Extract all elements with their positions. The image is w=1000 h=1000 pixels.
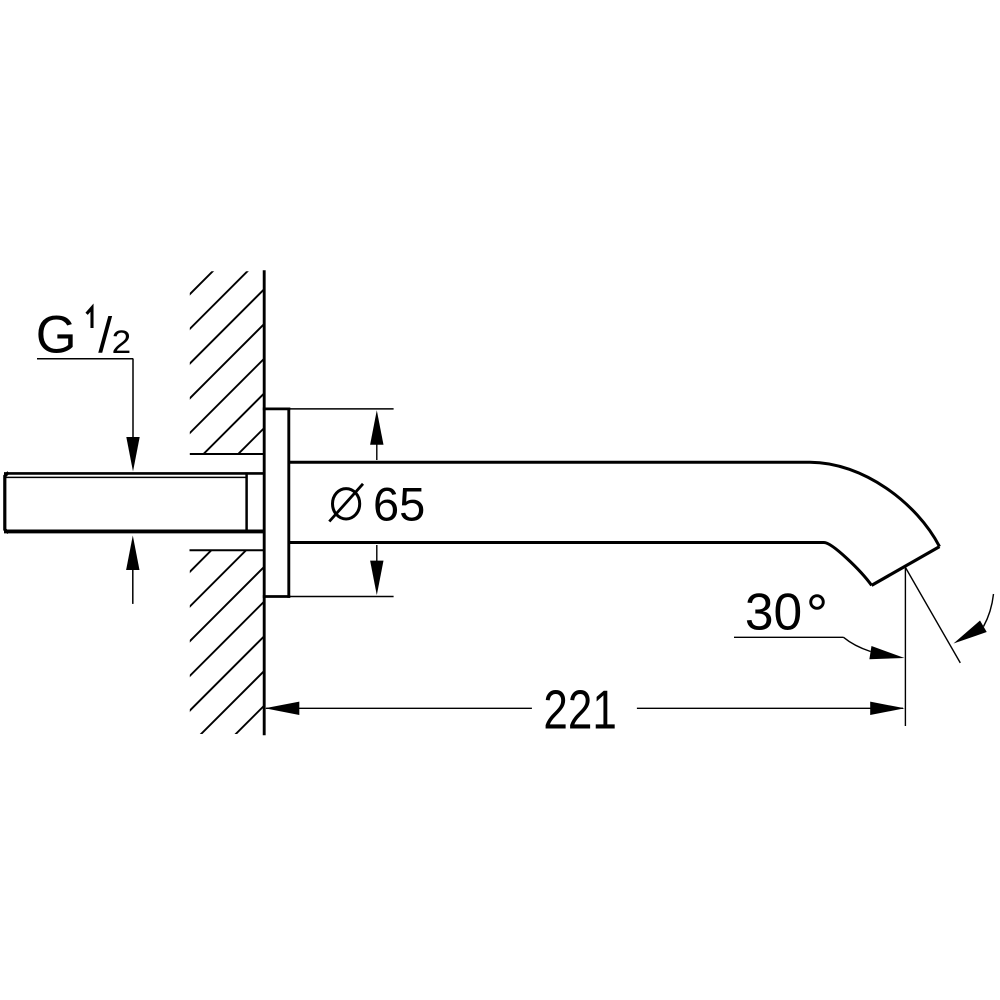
dim221 line left segment xyxy=(266,707,532,709)
G12 up arrow tail xyxy=(132,569,134,604)
svg-text:G: G xyxy=(36,305,77,364)
dia65 symbol circle xyxy=(333,489,360,519)
flange top extension line xyxy=(290,408,394,410)
flange bottom line xyxy=(263,595,290,598)
wall face line xyxy=(263,270,266,735)
wall hatching xyxy=(186,218,266,819)
dia65 symbol slash xyxy=(329,484,363,522)
G12 down arrow xyxy=(126,437,139,472)
dia65 top arrow tail xyxy=(376,443,378,460)
G12 underline xyxy=(37,358,133,360)
svg-text:65: 65 xyxy=(373,478,425,531)
degree ring xyxy=(811,596,824,609)
dia65 bottom arrow tail xyxy=(376,545,378,563)
deg30 leader curve xyxy=(844,637,871,651)
spout tube top line xyxy=(289,461,810,464)
spout mouth line xyxy=(872,547,940,586)
G12 text numerator 1 xyxy=(87,308,92,328)
flange top line xyxy=(263,407,290,410)
svg-text:2: 2 xyxy=(112,325,132,360)
deg30 leader arrow xyxy=(869,646,905,665)
pipe end line xyxy=(245,472,248,533)
pipe top edge xyxy=(4,472,264,475)
svg-text:30: 30 xyxy=(745,583,802,641)
dim221 left arrow xyxy=(265,702,300,715)
dia65 bottom arrow xyxy=(370,561,383,596)
dia65 top arrow xyxy=(370,410,383,445)
angle arc right arrow xyxy=(950,620,987,649)
angle arc right xyxy=(984,594,994,627)
wall hole bottom edge xyxy=(190,549,266,551)
pipe left cap xyxy=(5,472,9,532)
flange bottom extension line xyxy=(290,596,394,598)
spout tube bottom line xyxy=(289,541,824,544)
dim221 right arrow xyxy=(870,702,905,715)
tip vertical dimension line xyxy=(904,567,906,726)
flange right edge xyxy=(287,408,290,598)
spout bottom curve xyxy=(824,543,872,586)
G12 up arrow xyxy=(126,536,139,571)
wall hole top edge xyxy=(190,453,266,455)
tip angled outlet axis line xyxy=(905,567,960,663)
svg-text:/: / xyxy=(98,307,112,363)
pipe bottom edge xyxy=(4,529,264,533)
G12 vertical leader xyxy=(132,359,134,439)
spout top curve xyxy=(810,462,940,546)
dim221 line right segment xyxy=(637,707,903,709)
pipe thread line xyxy=(6,476,247,478)
svg-text:221: 221 xyxy=(543,679,616,741)
deg30 leader horizontal xyxy=(734,636,844,638)
